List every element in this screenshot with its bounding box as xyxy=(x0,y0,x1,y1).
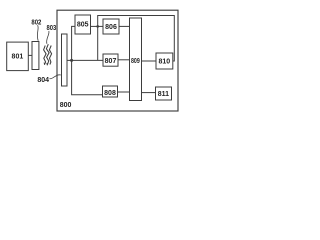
light rays 803 xyxy=(44,46,47,65)
svg-text:803: 803 xyxy=(47,25,57,32)
svg-text:807: 807 xyxy=(105,58,117,65)
wire junction drop 806 line to 807 line xyxy=(97,26,99,60)
svg-text:806: 806 xyxy=(105,24,117,31)
bar 809 xyxy=(130,18,142,101)
leader 803 xyxy=(47,31,49,44)
enclosure box 800 xyxy=(57,10,178,111)
box 801 xyxy=(7,42,29,71)
ray arrow tips xyxy=(44,63,48,66)
junction dot A xyxy=(70,59,73,62)
leader 802 xyxy=(36,25,39,41)
box 811 xyxy=(156,87,172,100)
emitter rect 802 xyxy=(32,42,39,70)
wire 805-806 xyxy=(91,25,104,27)
box 807 xyxy=(103,54,118,66)
svg-text:809: 809 xyxy=(131,58,140,65)
box 808 xyxy=(103,86,118,97)
svg-text:801: 801 xyxy=(12,54,24,61)
wire 804-807 xyxy=(67,59,103,61)
wire 807-809 xyxy=(118,59,130,61)
wire 809-811 xyxy=(142,92,156,94)
svg-text:804: 804 xyxy=(37,77,49,84)
wire 805 left drop to 808 xyxy=(72,26,103,94)
svg-text:805: 805 xyxy=(77,21,89,28)
svg-text:800: 800 xyxy=(60,102,72,109)
leader 804 xyxy=(50,75,61,79)
box 810 xyxy=(156,53,173,69)
wire 808-809 xyxy=(118,91,130,93)
svg-text:808: 808 xyxy=(104,90,116,97)
svg-text:802: 802 xyxy=(31,19,41,26)
wire 806-809 xyxy=(119,25,130,27)
svg-text:810: 810 xyxy=(158,59,170,66)
wire top route to 810 xyxy=(98,16,175,62)
window rect 804 xyxy=(62,34,68,86)
junction dot B xyxy=(96,25,99,28)
box 805 xyxy=(75,15,91,34)
wire 809-810 xyxy=(142,60,157,62)
wire 801-802 xyxy=(28,54,32,56)
box 806 xyxy=(103,19,119,34)
svg-text:811: 811 xyxy=(158,91,169,98)
